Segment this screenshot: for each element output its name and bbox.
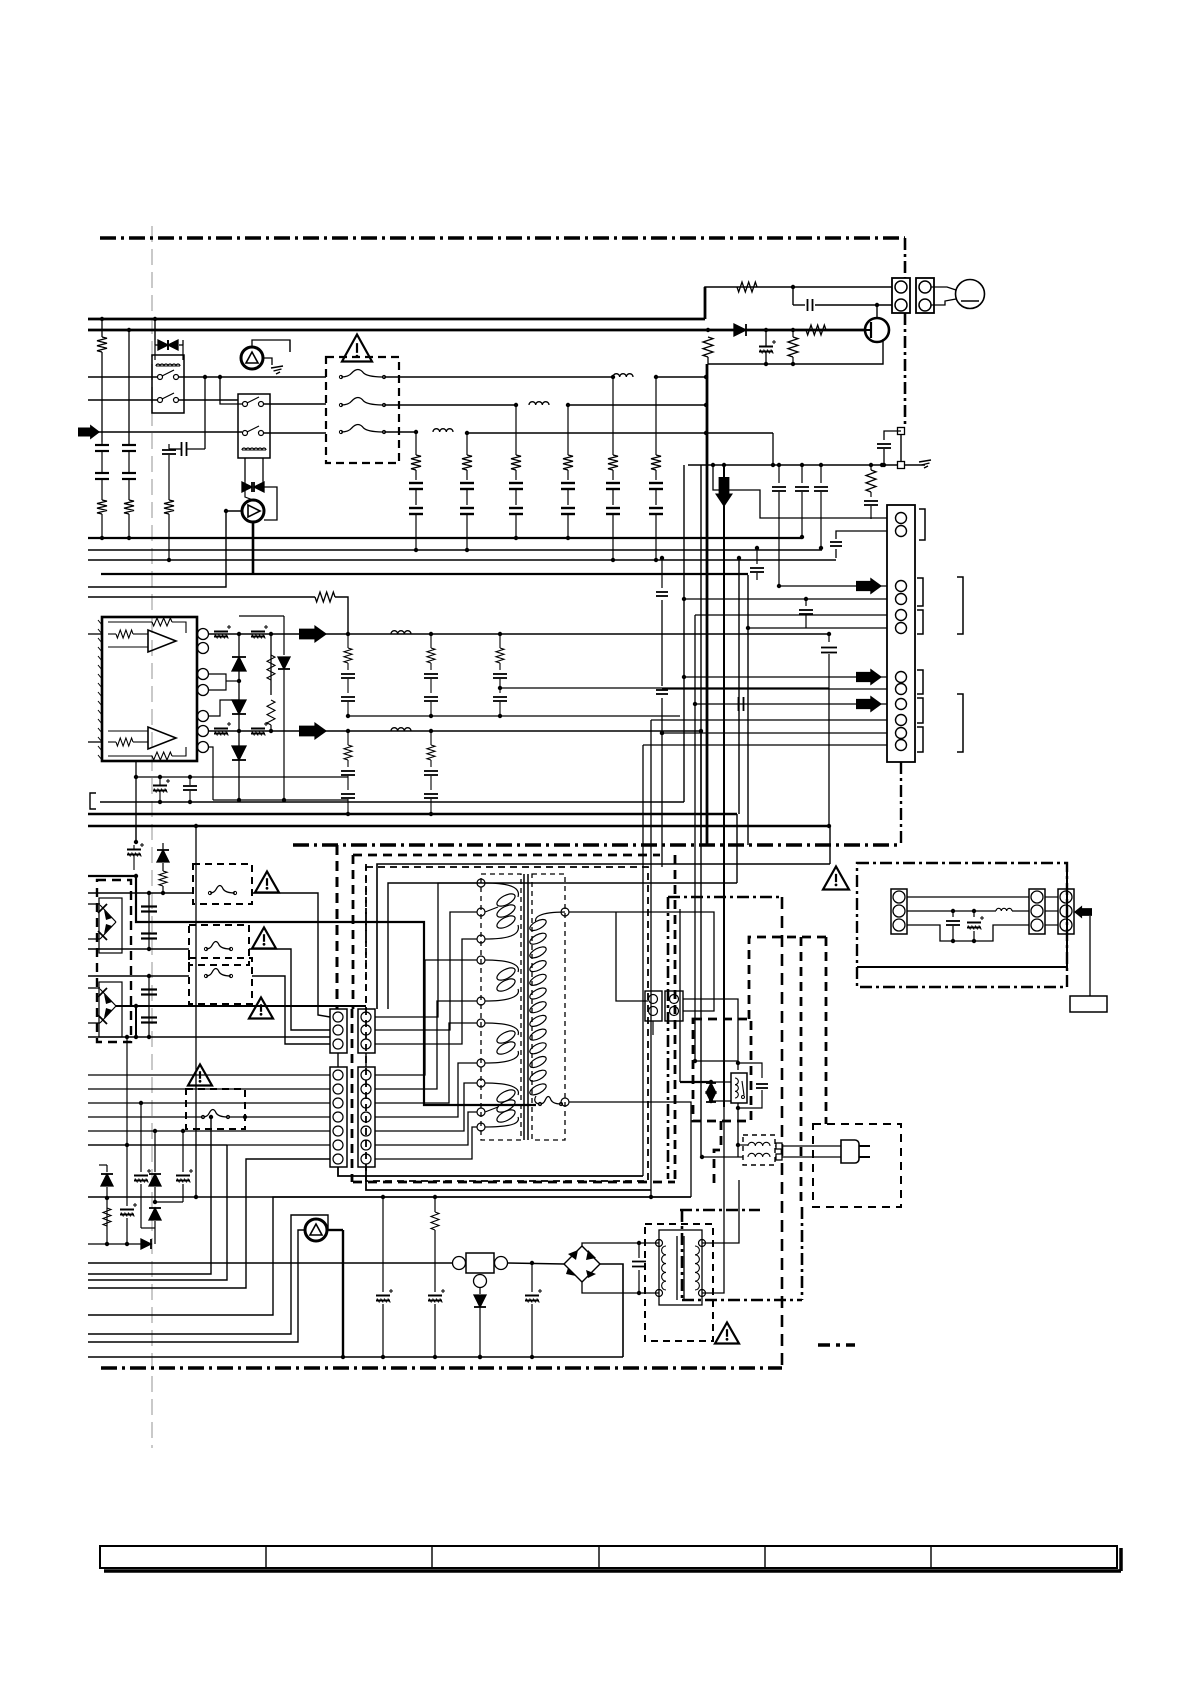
wire pins mid xyxy=(209,674,226,690)
wire cn c6 xyxy=(643,744,887,746)
caps column lower-left xyxy=(148,893,150,949)
wire fuse feed 1 xyxy=(88,892,193,894)
wall plate xyxy=(1070,996,1107,1012)
wire secondary up 2 xyxy=(702,1107,724,1293)
capacitor column a xyxy=(778,465,780,483)
wire mid xyxy=(88,1144,227,1146)
arrow to CN903 2 xyxy=(856,669,882,686)
pol cap low 2 xyxy=(428,1295,442,1297)
pin xyxy=(361,1126,371,1136)
bus mid 1 xyxy=(88,537,802,539)
pin xyxy=(896,594,907,605)
junction ch1 xyxy=(346,632,350,636)
fuse F803 xyxy=(206,969,231,977)
wire node row xyxy=(688,464,925,466)
bracket a xyxy=(919,509,925,540)
junction xyxy=(791,285,795,289)
vertical feed 7 xyxy=(661,558,663,588)
pin xyxy=(361,1154,371,1164)
pin xyxy=(896,715,907,726)
T802 core xyxy=(676,1236,678,1300)
bracket outer 1 xyxy=(957,577,963,634)
transformer assembly box dashed xyxy=(366,867,648,1181)
bridge box 1 xyxy=(99,898,122,953)
wire ch2 out corner xyxy=(700,731,702,843)
zener D la xyxy=(99,1164,107,1166)
square node 2 xyxy=(898,462,905,469)
op-amp A xyxy=(148,630,176,652)
secondary terminal bottom xyxy=(561,1098,569,1106)
main board boundary top dash-dot xyxy=(100,236,905,239)
rail ch1 return xyxy=(348,715,680,717)
resistor left low xyxy=(159,871,167,886)
pin xyxy=(896,672,907,683)
wire xyxy=(792,287,794,305)
RC column 6 resistor xyxy=(655,377,657,455)
connector CN903 strip xyxy=(887,505,915,762)
arrow inlet xyxy=(1074,906,1092,919)
diode pair BR801 xyxy=(100,905,116,922)
square node f1 xyxy=(776,1143,782,1149)
resistor Rn1 xyxy=(267,655,275,680)
warning T802 xyxy=(715,1323,739,1344)
wire fuse1 out xyxy=(384,376,613,378)
inlet solid lines xyxy=(857,863,1067,967)
filter coil 1 xyxy=(748,1142,770,1146)
footer divider xyxy=(764,1546,766,1568)
staircase wires bottom-left xyxy=(88,1118,211,1274)
pin xyxy=(896,740,907,751)
vertical feed 4 xyxy=(738,558,740,814)
RC column 2 resistor xyxy=(466,433,468,455)
boundary dashed tail xyxy=(714,1121,721,1185)
wire lower lateral 2 xyxy=(366,1167,651,1190)
wire lower lateral xyxy=(338,1167,643,1176)
rail a xyxy=(100,801,684,803)
wire lateral xyxy=(155,1201,183,1203)
resistor Rn2 xyxy=(267,700,275,725)
relay contact 1 xyxy=(158,375,163,380)
bus mid 2 xyxy=(88,549,822,551)
wire inlet mid xyxy=(907,910,996,912)
capacitor column b xyxy=(801,465,803,483)
pin xyxy=(649,1007,658,1016)
pol cap ch2 b xyxy=(251,728,265,730)
IC pins xyxy=(198,629,209,640)
pin xyxy=(333,1154,343,1164)
fuse F804 box xyxy=(186,1089,245,1129)
diode pair relay xyxy=(706,1083,716,1093)
wire secondary bottom link xyxy=(695,1060,738,1062)
staircase A2 to taps xyxy=(375,883,477,1017)
boundary dashed inner xyxy=(365,864,367,1009)
secondary winding xyxy=(536,912,565,922)
boundary dashed relay box xyxy=(693,1019,751,1121)
resistor R col-C xyxy=(164,500,174,514)
inductor inlet xyxy=(996,908,1012,911)
transformer T801 secondary box xyxy=(532,874,565,1140)
bus mid 4 xyxy=(101,573,748,575)
pol cap ch1 a xyxy=(214,631,228,633)
wire inlet top xyxy=(907,896,1029,898)
main board boundary bottom dash-dot xyxy=(293,843,898,846)
RC column 2 capacitor 2 xyxy=(460,507,474,509)
RC column 6 capacitor 1 xyxy=(649,482,663,484)
bracket b xyxy=(917,578,923,606)
resistor R below bus 2 xyxy=(788,337,798,357)
primary tap terminal xyxy=(477,1059,485,1067)
capacitor C col-A 2 xyxy=(95,472,109,474)
pin xyxy=(1031,891,1043,903)
ch2 RC chain resistor xyxy=(427,745,435,760)
pin xyxy=(670,1007,679,1016)
vertical feed 9 xyxy=(642,745,644,1176)
diode network vertical 2 xyxy=(270,634,272,695)
capacitor relay xyxy=(738,1063,762,1078)
relay contact 1 xyxy=(243,402,248,407)
pin xyxy=(896,581,907,592)
resistor column d xyxy=(870,465,872,470)
inductor L3 xyxy=(433,429,453,432)
wire edge cluster top xyxy=(135,826,137,843)
pin xyxy=(361,1039,371,1049)
fuse box dashed xyxy=(326,357,399,463)
pol cap low 1 xyxy=(382,1197,384,1292)
line filter box xyxy=(743,1135,775,1165)
vertical feed thick xyxy=(706,364,709,845)
primary tap terminal xyxy=(477,879,485,887)
footer divider xyxy=(431,1546,433,1568)
wire cn b1 xyxy=(779,585,887,587)
resistor input A xyxy=(116,630,133,638)
T802 secondary xyxy=(695,1246,699,1290)
wire relay2 contacts xyxy=(264,403,326,405)
capacitor C small xyxy=(807,299,809,311)
vertical rail join 1 xyxy=(736,814,738,883)
wire fuse feed 3 xyxy=(88,975,189,977)
relay contact 2 xyxy=(243,431,248,436)
vertical feed 2 xyxy=(683,465,685,802)
wire top rail lower xyxy=(88,1196,691,1198)
pin xyxy=(361,1098,371,1108)
wire inlet bottom xyxy=(907,925,1029,941)
pin xyxy=(893,905,905,917)
pin xyxy=(361,1084,371,1094)
wire reg in xyxy=(88,1262,452,1264)
pin xyxy=(333,1039,343,1049)
wire diode links xyxy=(711,1081,731,1083)
square node f2 xyxy=(776,1154,782,1160)
ch1 RC chain resistor xyxy=(427,648,435,663)
wire scr2 down thick xyxy=(252,522,255,574)
plug dashed box xyxy=(813,1124,901,1207)
RC column 4 capacitor 2 xyxy=(561,507,575,509)
fuse F801 xyxy=(210,886,235,894)
capacitor C col-A xyxy=(95,444,109,446)
RC column 3 capacitor 2 xyxy=(509,507,523,509)
diode reg xyxy=(479,1288,481,1294)
wire scr gate return xyxy=(88,511,242,587)
wire scr thick xyxy=(327,1229,343,1231)
primary tap terminal xyxy=(477,956,485,964)
ch2 RC chain resistor xyxy=(344,745,352,760)
diode D bus xyxy=(734,324,746,336)
rail ch1 return 2 xyxy=(500,687,829,689)
fuse F901 xyxy=(341,370,384,378)
hatch left IC xyxy=(98,620,102,625)
pin xyxy=(893,891,905,903)
link connectors xyxy=(1045,896,1058,898)
diode network vertical 1 xyxy=(238,634,240,800)
capacitor C col-B xyxy=(122,444,136,446)
IC901 power amplifier box xyxy=(102,617,197,761)
pin xyxy=(333,1070,343,1080)
voltage regulator IC801 xyxy=(466,1253,494,1273)
pin xyxy=(361,1025,371,1035)
wire relay drive xyxy=(289,340,291,352)
vertical feed 5 xyxy=(747,575,749,845)
diode left low xyxy=(162,843,164,849)
wire cn c1 xyxy=(684,676,887,678)
arrow ch1 xyxy=(299,625,327,643)
pin xyxy=(896,684,907,695)
primary tap terminal xyxy=(477,908,485,916)
pin xyxy=(1060,891,1072,903)
pin xyxy=(1060,905,1072,917)
rail c thick xyxy=(88,825,829,828)
primary tap terminal xyxy=(477,997,485,1005)
transformer core xyxy=(523,874,525,1140)
pin xyxy=(333,1112,343,1122)
bracket small left xyxy=(90,793,96,809)
pin xyxy=(333,1025,343,1035)
pin 2 xyxy=(919,299,931,311)
relay contact 2 xyxy=(158,398,163,403)
diode pair D relay1 xyxy=(158,340,168,350)
SCR Q902 xyxy=(241,347,263,369)
RC column 1 capacitor 2 xyxy=(409,507,423,509)
connector CN804 xyxy=(665,991,683,1021)
primary tap terminal xyxy=(477,1108,485,1116)
fuse F903 xyxy=(341,425,384,433)
ch2 RC chain cap2 xyxy=(424,793,438,795)
wire thick secondary feed xyxy=(88,876,536,1105)
connector CN901 xyxy=(892,278,910,313)
diode pair BR802 xyxy=(100,989,116,1006)
pin xyxy=(896,526,907,537)
wire bridge bottom xyxy=(582,1282,659,1293)
wire bus lower xyxy=(88,1036,330,1038)
square node 1 xyxy=(900,428,902,461)
pol cap low 3 xyxy=(531,1263,533,1292)
boundary dashed wander outer xyxy=(749,937,826,1019)
bridge box 2 xyxy=(99,982,122,1037)
pol cap below IC xyxy=(153,785,167,787)
thermal fuse T801 xyxy=(540,1097,561,1105)
T802 primary xyxy=(662,1246,666,1290)
wire scr xyxy=(252,340,290,352)
vertical feed 6 xyxy=(694,615,696,1061)
capacitor C cn2 xyxy=(805,599,807,606)
resistor feedback A xyxy=(152,618,172,626)
diode ld2 xyxy=(149,1208,161,1220)
primary winding group 1 xyxy=(485,883,518,939)
wire cn b4 xyxy=(748,627,887,629)
wire cn c5 xyxy=(662,732,887,734)
board link vertical xyxy=(900,762,902,845)
wire bridge right xyxy=(600,1264,623,1357)
RC column 4 capacitor 1 xyxy=(561,482,575,484)
capacitor ch1 end xyxy=(828,634,830,642)
warning triangle xyxy=(342,335,372,362)
primary winding group 4 xyxy=(485,1083,518,1127)
inductor L1 xyxy=(613,374,633,377)
wire secondary out top xyxy=(569,912,714,1011)
wire collector xyxy=(876,305,878,318)
boundary dashed vertical 801 xyxy=(800,937,803,1207)
arrow to CN903 3 xyxy=(856,696,882,713)
fuse F802 xyxy=(206,942,231,950)
ch1 RC chain cap1 xyxy=(341,673,355,675)
wire relay2 coil down xyxy=(244,458,246,481)
pin xyxy=(896,728,907,739)
pin xyxy=(361,1012,371,1022)
warning F803 xyxy=(249,998,273,1019)
pin xyxy=(1060,919,1072,931)
connector CN852 xyxy=(1029,889,1045,934)
resistor R feed xyxy=(315,592,335,602)
resistor input B xyxy=(116,738,133,746)
pol cap ch1 b xyxy=(251,631,265,633)
ch1 RC chain cap2 xyxy=(341,696,355,698)
RC column 1 capacitor 1 xyxy=(409,482,423,484)
diode Dn2 xyxy=(232,700,246,714)
resistor R col-B 2 xyxy=(128,479,130,500)
boundary between strips xyxy=(351,1009,354,1182)
resistor feedback B xyxy=(152,752,172,760)
wire bridge top xyxy=(582,1243,659,1246)
fold crease line xyxy=(151,226,153,1448)
wire secondary up 1 xyxy=(702,1180,739,1243)
relay coil xyxy=(156,364,180,366)
col-B wire xyxy=(128,330,130,444)
lamp xyxy=(956,280,985,309)
boundary dashed box left xyxy=(352,855,355,1009)
primary tap terminal xyxy=(477,1123,485,1131)
pin xyxy=(649,995,658,1004)
wire emitter xyxy=(708,339,883,364)
wire cn b3 xyxy=(695,614,887,616)
ground xyxy=(271,366,283,368)
capacitor C series horizontal xyxy=(181,442,183,456)
resistor low mid xyxy=(434,1197,436,1212)
boundary lower left vertical xyxy=(336,845,339,1009)
pin xyxy=(333,1140,343,1150)
connector CN853 xyxy=(1058,889,1074,934)
vertical feed diode xyxy=(679,909,681,1082)
connector CN851 xyxy=(891,889,907,934)
pin xyxy=(1031,905,1043,917)
capacitor feed 7b xyxy=(656,689,668,691)
wire to wall plate xyxy=(1089,916,1091,996)
wire f802 staircase xyxy=(249,949,330,1030)
bridge rectifier BR802 xyxy=(564,1246,582,1264)
resistor R bus xyxy=(737,282,757,292)
boundary D box xyxy=(668,896,782,899)
vertical to rail xyxy=(828,688,830,826)
wire relay bottom xyxy=(737,1103,739,1157)
RC column 5 resistor xyxy=(612,377,614,455)
warning F802 xyxy=(252,928,276,949)
channel2 wire xyxy=(209,730,701,732)
footer divider xyxy=(598,1546,600,1568)
wire from contact bus xyxy=(204,377,206,449)
wire fuse feed 2 xyxy=(88,948,189,950)
resistor R bus2 xyxy=(806,325,826,335)
junction xyxy=(706,328,710,332)
fuse F802 box xyxy=(189,925,249,965)
pin xyxy=(1031,919,1043,931)
connector CN801 A1 xyxy=(330,1009,347,1053)
relay coil rl801 xyxy=(735,1078,738,1098)
warning F801 xyxy=(255,872,279,893)
bus line B+ thick xyxy=(88,318,705,321)
vertical feed 10 xyxy=(683,677,685,802)
legend dash-dot sample xyxy=(818,1343,855,1347)
RC column 3 capacitor 1 xyxy=(509,482,523,484)
capacitor C+ below bus xyxy=(759,346,773,348)
pol capacitor inlet xyxy=(973,911,975,917)
ch2 RC chain cap2 xyxy=(341,793,355,795)
SCR Q903 xyxy=(242,500,264,522)
capacitor inlet xyxy=(952,911,954,917)
boundary T2 overlay xyxy=(680,1209,760,1212)
connector CN803 xyxy=(645,991,662,1021)
dashed box around bridges xyxy=(97,880,131,1042)
diode Dn1 xyxy=(232,657,246,671)
footer divider xyxy=(930,1546,932,1568)
warning F804 xyxy=(188,1065,212,1086)
primary winding group 3 xyxy=(485,1023,518,1063)
op-amp B xyxy=(148,727,176,749)
fuse F804 xyxy=(203,1110,228,1118)
diode ld1 xyxy=(154,1131,156,1172)
wire f803 staircase xyxy=(252,976,330,1044)
wires connector right xyxy=(683,999,738,1070)
connector CN902 xyxy=(916,278,934,313)
AC inlet boundary box xyxy=(857,863,1067,987)
wire zener bus xyxy=(88,1243,152,1245)
ch2 RC chain cap1 xyxy=(424,770,438,772)
wire rail to A2 top xyxy=(377,864,830,1009)
wire fuse2 out xyxy=(384,404,516,406)
main board boundary right vertical dash-dot xyxy=(904,238,907,278)
boundary dashed B bottom xyxy=(353,1181,675,1184)
rail b thick xyxy=(88,813,737,816)
inductor ch1 xyxy=(391,631,411,634)
capacitor T2 in xyxy=(638,1243,640,1258)
wire CN903 pin2 riser xyxy=(835,549,837,558)
bracket c xyxy=(917,610,923,634)
wire to CN803 xyxy=(616,912,648,1001)
boundary dashed wander right xyxy=(825,937,828,1124)
pin xyxy=(896,513,907,524)
caps column lower-left 2 xyxy=(148,976,150,1037)
bridge input wires xyxy=(88,903,100,905)
wire xyxy=(793,304,805,306)
wire bottom network xyxy=(213,799,348,801)
warning triangle transformer xyxy=(823,867,849,890)
